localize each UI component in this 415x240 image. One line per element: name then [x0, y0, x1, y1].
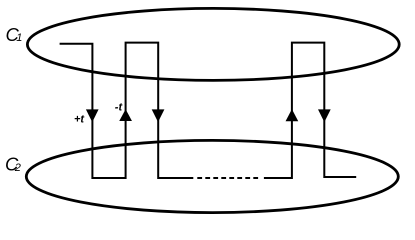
svg-text:+t: +t [74, 113, 85, 125]
arrow down A3 [152, 109, 165, 122]
arrow up A2 (-t) [119, 109, 132, 121]
label C1 [6, 24, 23, 45]
arrow up A4 [286, 109, 299, 121]
arrow down A5 [318, 109, 331, 122]
svg-text:1: 1 [16, 32, 22, 44]
set ellipse C2 (bottom) [26, 140, 398, 212]
wire: dashed low segment [197, 177, 258, 179]
wire: square wave solid segments [60, 43, 194, 178]
label C2 [5, 154, 21, 175]
svg-text:2: 2 [14, 162, 21, 174]
set ellipse C1 (top) [27, 8, 399, 80]
wire: right solid segments [264, 43, 356, 178]
arrow down A1 (+t) [86, 109, 99, 122]
